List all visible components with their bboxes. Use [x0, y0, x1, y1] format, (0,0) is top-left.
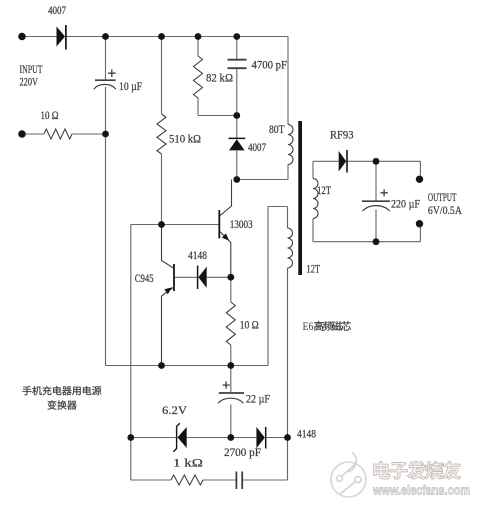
- svg-text:www.elecfans.com: www.elecfans.com: [372, 483, 470, 498]
- title line2 converter (CJK): [48, 400, 77, 409]
- diode D5 RF93: [339, 150, 347, 173]
- svg-text:6V/0.5A: 6V/0.5A: [428, 205, 463, 217]
- junction 10ohm rail: [227, 362, 234, 369]
- wire left mid drop: [130, 225, 132, 438]
- svg-text:220 µF: 220 µF: [391, 197, 420, 211]
- wire base row: [131, 224, 219, 226]
- junction zener left: [127, 434, 134, 441]
- svg-text:13003: 13003: [230, 219, 253, 231]
- zener diode ZD1 6.2V: [173, 423, 186, 451]
- diode D1 4007 (input): [57, 25, 66, 50]
- junction top 82k: [195, 33, 202, 40]
- junction 82k/4700pF: [233, 112, 240, 119]
- diode D4 4148 (bottom): [256, 427, 265, 449]
- diode D3 4148 (base clamp): [198, 266, 207, 290]
- transformer T1 core: [298, 121, 302, 275]
- junction secondary top: [373, 158, 380, 165]
- junction emitter rail: [158, 362, 165, 369]
- svg-text:4148: 4148: [188, 250, 207, 262]
- svg-text:220V: 220V: [20, 75, 39, 89]
- terminal output minus: [416, 220, 423, 227]
- svg-text:80T: 80T: [269, 124, 285, 136]
- junction emitter/4148: [227, 274, 234, 281]
- wire top rail: [22, 36, 288, 38]
- svg-text:OUTPUT: OUTPUT: [428, 192, 457, 204]
- svg-text:4007: 4007: [48, 5, 66, 17]
- junction base node: [158, 221, 165, 228]
- watermark logo circle: [331, 453, 366, 498]
- svg-text:82 kΩ: 82 kΩ: [206, 71, 233, 85]
- wire feedback top lead: [268, 207, 288, 366]
- svg-text:6.2V: 6.2V: [162, 403, 187, 417]
- resistor R3 82k: [194, 56, 203, 98]
- svg-text:510 kΩ: 510 kΩ: [169, 132, 201, 146]
- wire 220uF branch: [375, 161, 377, 241]
- transformer T1 secondary winding 12T: [313, 179, 318, 219]
- wire secondary top lead: [313, 161, 420, 178]
- capacitor C2 4700pF: [228, 60, 247, 68]
- junction secondary bottom: [373, 238, 380, 245]
- resistor R2 510k: [157, 114, 166, 154]
- capacitor C3 22uF electrolytic: [218, 382, 244, 404]
- wire 82k branch: [198, 37, 237, 116]
- transistor Q1 13003 NPN: [219, 180, 231, 278]
- svg-text:2700 pF: 2700 pF: [224, 445, 261, 459]
- title line1 phone-charger power supply (CJK): [23, 386, 102, 395]
- junction top 510k: [158, 33, 165, 40]
- transformer T1 feedback winding 12T: [288, 228, 293, 268]
- svg-text:4148: 4148: [297, 429, 316, 441]
- svg-text:10 Ω: 10 Ω: [41, 110, 59, 122]
- resistor R5 1k: [171, 475, 203, 485]
- wire left branch lower: [105, 87, 107, 366]
- wire collector link: [237, 165, 288, 180]
- junction input lower: [102, 131, 109, 138]
- junction feedback bottom: [284, 434, 291, 441]
- svg-text:C945: C945: [135, 273, 154, 285]
- wire secondary bottom lead: [313, 219, 420, 242]
- svg-text:1 kΩ: 1 kΩ: [173, 456, 203, 470]
- wire primary top drop: [287, 37, 289, 125]
- terminal output plus: [416, 176, 423, 183]
- junction collector node: [233, 176, 240, 183]
- svg-text:10 µF: 10 µF: [119, 79, 142, 93]
- svg-text:E6: E6: [303, 321, 314, 333]
- watermark brand text (CJK): [374, 461, 461, 479]
- wire bottom-mid rail: [106, 365, 269, 367]
- svg-text:RF93: RF93: [330, 128, 354, 142]
- resistor R4 10 ohm (emitter): [226, 302, 235, 345]
- svg-text:12T: 12T: [317, 185, 331, 197]
- wire 510k branch: [161, 37, 163, 225]
- junction top 4700pF: [233, 33, 240, 40]
- label high-frequency core (CJK): [314, 321, 351, 331]
- junction zener right: [227, 434, 234, 441]
- capacitor C4 2700pF: [236, 472, 242, 490]
- capacitor C1 10uF electrolytic: [94, 69, 116, 89]
- junction top-left cap: [102, 33, 109, 40]
- svg-text:12T: 12T: [307, 264, 321, 276]
- wire 22uF branch: [230, 366, 232, 438]
- svg-text:4700 pF: 4700 pF: [252, 58, 288, 72]
- wire 4700pF branch: [236, 37, 238, 116]
- wire 10ohm mid branch: [230, 277, 232, 365]
- wire 4007 vertical branch: [236, 116, 238, 180]
- svg-text:4007: 4007: [248, 142, 266, 154]
- wire input lower left: [22, 133, 44, 135]
- wire bottom loop: [131, 438, 288, 481]
- capacitor C5 220uF electrolytic: [362, 189, 390, 211]
- wire zener row: [131, 437, 288, 439]
- transformer T1 primary winding 80T: [288, 125, 293, 165]
- wire left branch upper: [105, 37, 107, 80]
- wire 4148 upper row: [174, 276, 231, 278]
- transistor Q2 C945: [162, 225, 175, 366]
- terminal input upper: [18, 33, 26, 41]
- resistor R1 10 ohm (input): [44, 129, 72, 139]
- wire feedback bottom lead: [287, 268, 289, 438]
- svg-text:10 Ω: 10 Ω: [240, 318, 259, 332]
- diode D2 4007 (vertical, snubber): [229, 138, 246, 150]
- svg-text:22 µF: 22 µF: [246, 392, 270, 406]
- terminal input lower: [18, 130, 26, 138]
- wire input lower right: [72, 133, 106, 135]
- wire output terminal links: [419, 161, 421, 241]
